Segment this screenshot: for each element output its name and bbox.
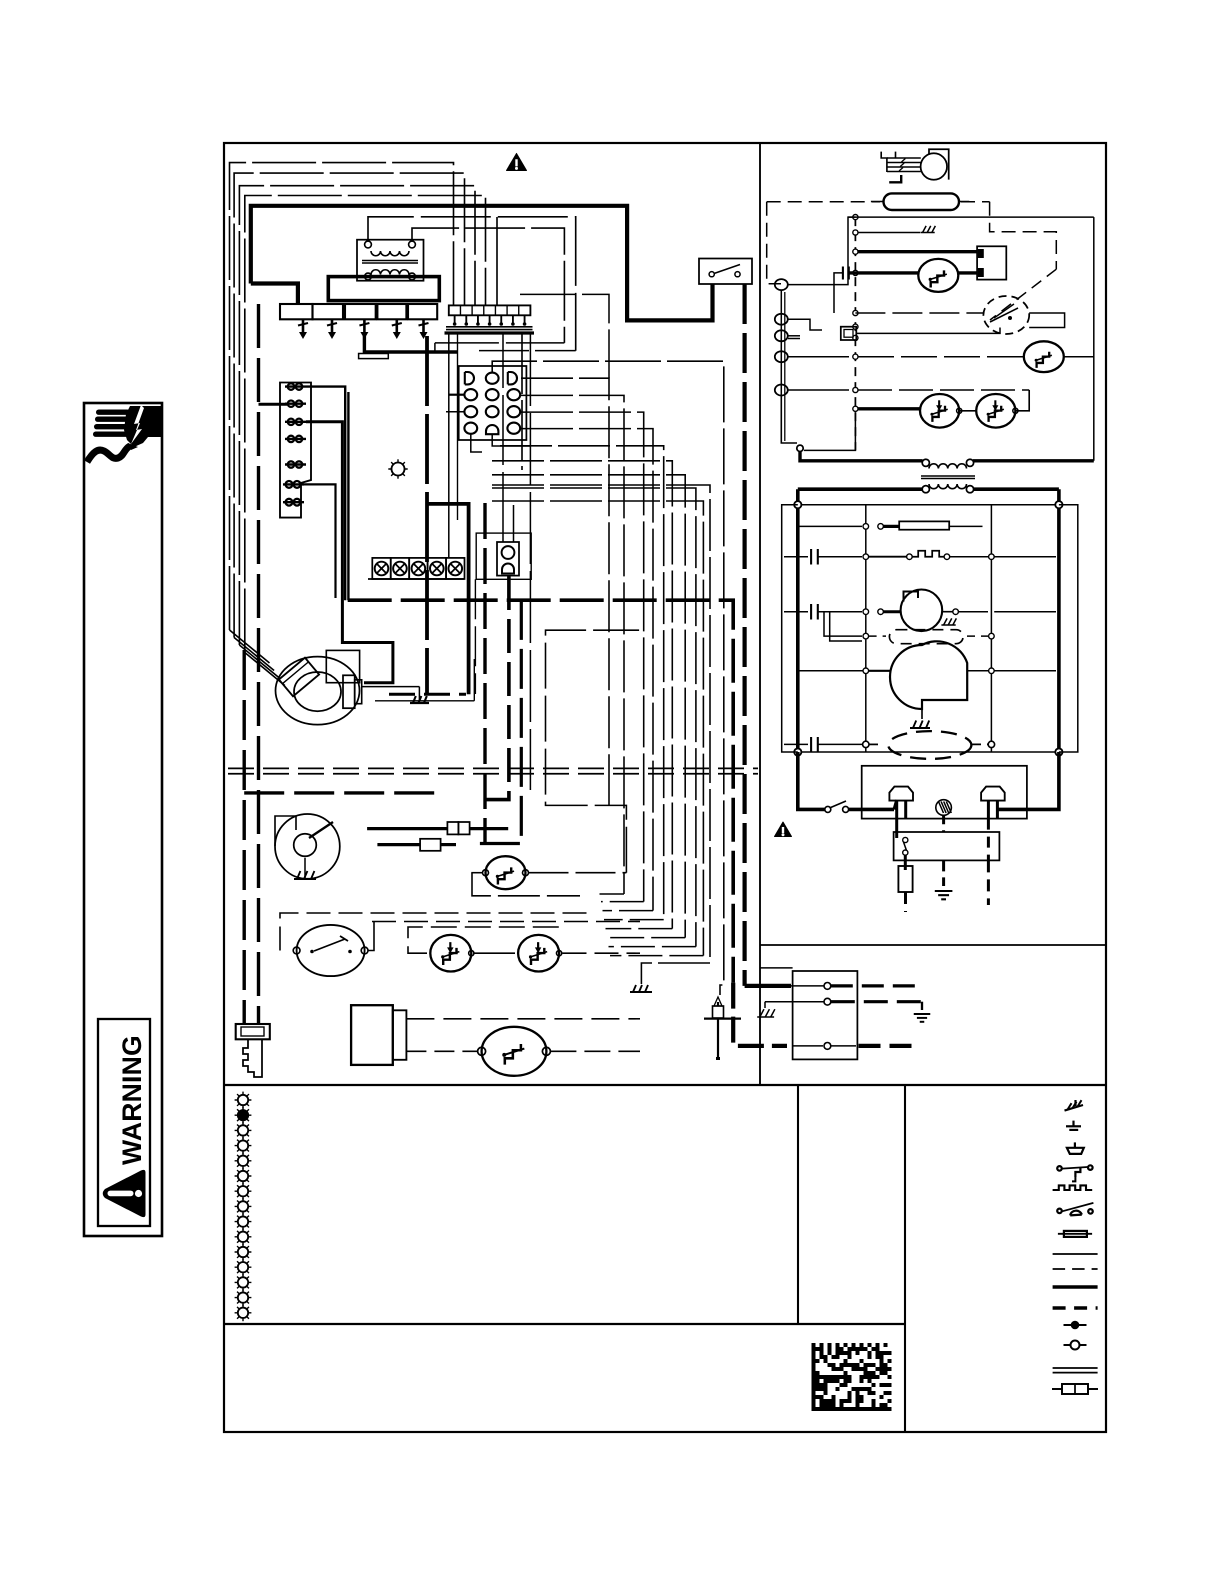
- svg-text:WARNING: WARNING: [117, 1035, 147, 1165]
